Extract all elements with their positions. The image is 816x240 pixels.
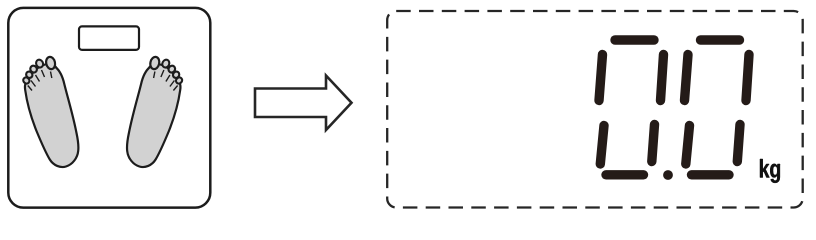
right foot <box>127 56 183 167</box>
right foot toe 5 <box>175 76 184 85</box>
segment A top <box>701 35 740 44</box>
decimal point <box>663 170 673 180</box>
digit units "0" <box>685 40 750 175</box>
left foot big toe <box>45 56 56 70</box>
segment B upper-right <box>746 55 749 101</box>
left foot <box>22 56 78 167</box>
left foot toe 4 <box>25 70 34 79</box>
segment E lower-left <box>686 126 690 165</box>
right foot toe 4 <box>172 70 181 79</box>
segment D bottom <box>606 170 644 179</box>
arrow <box>255 76 352 131</box>
right foot toe 2 <box>161 59 171 69</box>
left foot toe 3 <box>29 64 38 73</box>
left foot toe 5 <box>22 76 31 85</box>
right foot big toe <box>149 56 160 70</box>
segment E lower-left <box>600 126 604 165</box>
right foot toe 3 <box>167 64 176 73</box>
left foot sole <box>25 64 78 167</box>
left foot toe creases <box>28 70 52 91</box>
kg unit label <box>760 159 780 183</box>
display panel dashed border <box>387 11 803 208</box>
segment C lower-right <box>737 125 740 162</box>
right foot sole <box>127 64 180 167</box>
segment F upper-left <box>599 55 603 101</box>
left foot toe 2 <box>35 59 45 69</box>
right foot toe creases <box>154 70 178 91</box>
scale platform <box>8 8 210 208</box>
segment A top <box>615 35 654 44</box>
segment C lower-right <box>652 125 655 162</box>
segment D bottom <box>692 170 730 179</box>
digit tens "0" <box>599 40 664 175</box>
segment F upper-left <box>685 55 689 101</box>
segment B upper-right <box>661 55 664 101</box>
scale display window <box>79 26 139 50</box>
